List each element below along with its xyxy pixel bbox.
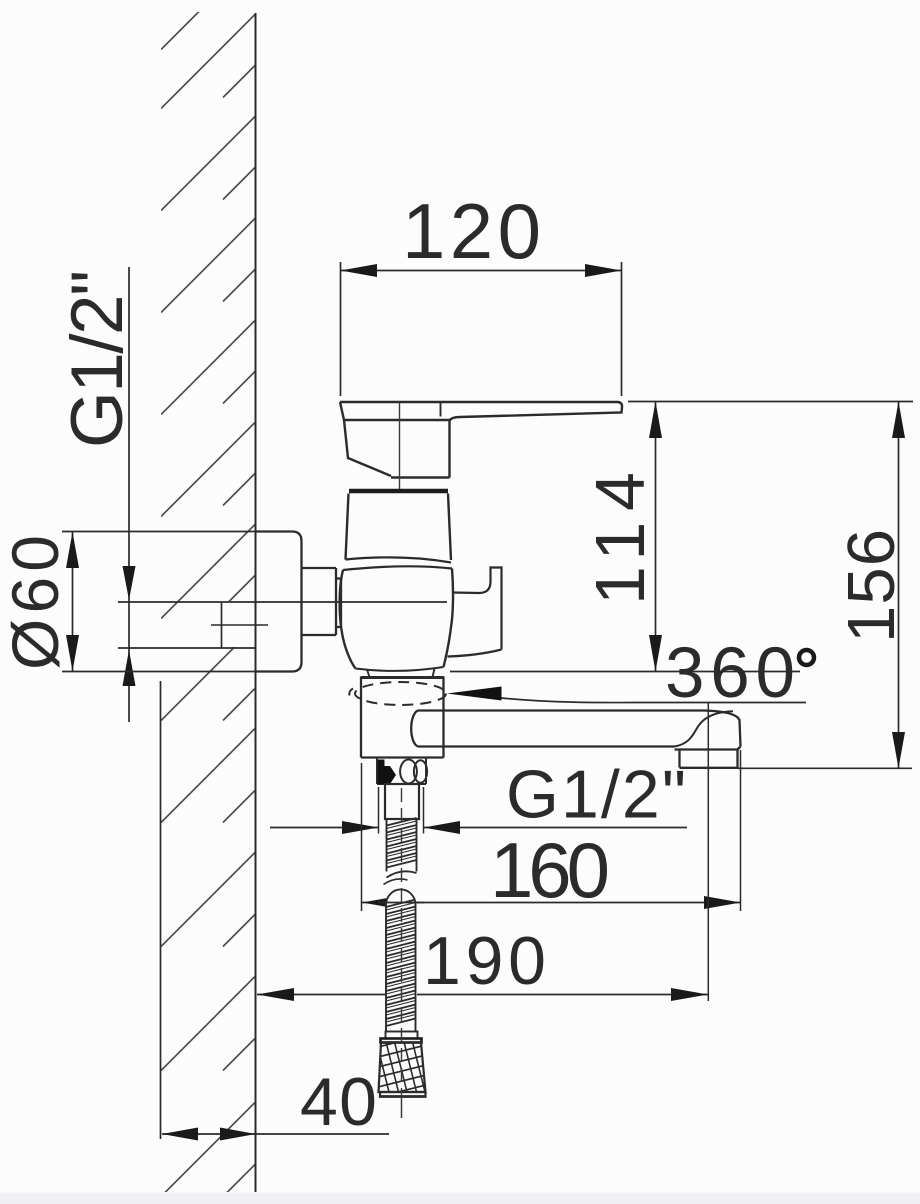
swivel dashed ellipse (355, 682, 446, 705)
svg-text:120: 120 (402, 187, 541, 275)
cartridge cap bold line (349, 489, 448, 493)
wall left edge (160, 681, 162, 1139)
wire: 160 dim line over hose dome (378, 902, 424, 904)
svg-text:G1/2": G1/2" (506, 757, 686, 833)
socket bottom line (118, 647, 256, 649)
wall flange (256, 532, 302, 672)
lever seam (440, 402, 442, 417)
shower hook (448, 568, 502, 657)
shower hose lower (386, 889, 416, 1031)
hose thread dimension (270, 787, 687, 834)
svg-text:40: 40 (300, 1064, 377, 1140)
lever plate (340, 402, 622, 478)
dimension 190 (257, 703, 708, 1001)
spout (411, 711, 740, 768)
wall nipple (302, 568, 342, 635)
dimension 120 (341, 262, 622, 396)
360 rotation arrow (447, 687, 502, 701)
svg-text:360: 360 (665, 634, 795, 713)
dimension 40 (162, 1128, 389, 1141)
handle neck (344, 420, 391, 476)
hose nut (385, 784, 419, 819)
svg-text:114: 114 (581, 472, 659, 605)
aerator (675, 748, 738, 750)
barrel flare ticks (367, 670, 370, 678)
cone top flange (381, 1039, 422, 1043)
svg-text:160: 160 (490, 826, 610, 914)
svg-text:Ø60: Ø60 (0, 535, 72, 670)
wall right edge (255, 13, 257, 1192)
handle centerline (399, 402, 401, 490)
wall socket clearing (222, 601, 256, 647)
wall hatching (161, 0, 256, 1204)
barrel (340, 570, 356, 669)
svg-text:190: 190 (423, 923, 546, 999)
swivel block (361, 678, 444, 758)
dimension 114 (450, 402, 913, 672)
socket centerline (211, 624, 268, 626)
dimension G1/2 (wall thread) (123, 267, 136, 722)
wall socket (221, 602, 223, 648)
svg-text:G1/2": G1/2" (57, 270, 138, 448)
dimension Ø60 (62, 532, 256, 672)
waist arcs (346, 557, 452, 562)
shower cone (374, 1034, 435, 1098)
scan margin band (0, 1193, 920, 1204)
cartridge body (340, 494, 453, 678)
hose centerline (401, 788, 403, 1096)
svg-text:156: 156 (834, 529, 909, 643)
hose ferrule (386, 1032, 418, 1039)
shower hose upper (384, 818, 417, 885)
hose connector under block (377, 758, 427, 785)
node: valve centerline (118, 601, 447, 603)
dimension 156 (738, 402, 913, 769)
dimension 160 (362, 750, 741, 911)
